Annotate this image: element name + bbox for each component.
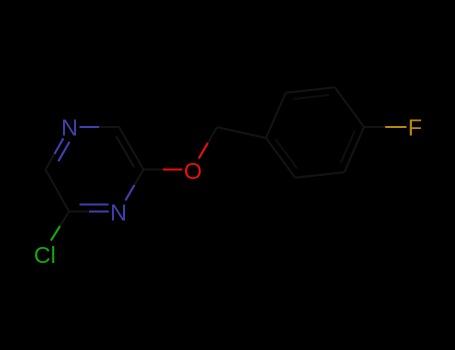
bond C6=N1 inner [58,142,69,162]
bond R=BR [344,127,364,172]
bond N4=C5 inner [80,203,109,205]
bond C2=C3 inner [116,136,134,167]
bond BL=L inner [276,139,298,168]
bond CH2-ipso [217,127,266,138]
svg-text:F: F [408,115,422,141]
bond C3-O [144,168,183,170]
svg-text:N: N [61,115,78,141]
svg-text:Cl: Cl [34,242,56,268]
svg-text:N: N [110,200,127,226]
bond R=BR inner [341,130,356,163]
svg-text:O: O [184,158,202,184]
bond O-CH2 [199,127,217,158]
bond C3-N4 [125,170,143,201]
bond N4=C5 [69,210,109,212]
bond C5-Cl [51,212,69,241]
bond C5-C6 [46,170,70,212]
bond BL=L [266,138,295,178]
bond BR-BL [295,172,344,178]
bond TR-R [335,87,364,127]
bond C2=C3 [119,127,144,170]
bond N1-C2 [80,126,120,128]
bond C6=N1 [46,138,64,169]
bond L-TL [266,93,286,138]
bond R-F [364,126,407,128]
bond TL=TR [286,87,335,93]
bond TL=TR inner [293,95,329,99]
